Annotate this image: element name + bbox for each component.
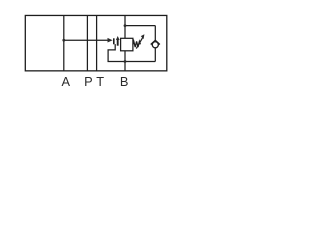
valve V1 blocked port bar bbox=[113, 38, 115, 44]
wire port B channel upper bbox=[124, 15, 126, 38]
check valve CV1 ball bbox=[152, 42, 158, 48]
check valve CV1 upper line bbox=[154, 26, 156, 41]
check valve CV1 seat bbox=[151, 40, 160, 44]
node junction B upper bbox=[124, 24, 127, 27]
svg-text:P: P bbox=[84, 74, 93, 89]
valve V1 spring bbox=[133, 41, 141, 47]
wire port P channel bbox=[86, 15, 88, 71]
wire port B channel lower bbox=[124, 51, 126, 71]
valve V1 adjustment arrow shaft bbox=[136, 37, 143, 48]
wire drain loop under valve bbox=[108, 44, 155, 61]
svg-text:T: T bbox=[96, 74, 104, 89]
svg-text:A: A bbox=[62, 74, 71, 89]
wire port T channel bbox=[96, 15, 98, 71]
valve V1 internal arrow shaft bbox=[117, 40, 119, 46]
wire upper link to check valve bbox=[125, 25, 155, 27]
valve V1 body bbox=[121, 38, 133, 51]
valve V1 adjustment arrowhead bbox=[141, 34, 145, 39]
node junction B lower bbox=[124, 60, 127, 63]
check valve CV1 lower line bbox=[154, 48, 156, 62]
svg-text:B: B bbox=[120, 74, 129, 89]
manifold plate outline bbox=[25, 15, 167, 70]
valve V1 internal arrowhead bbox=[116, 36, 120, 40]
valve V1 inlet arrowhead bbox=[108, 38, 113, 43]
wire pilot line from A bbox=[64, 39, 108, 41]
wire port A channel bbox=[63, 15, 65, 71]
node junction on A pilot bbox=[62, 39, 65, 42]
